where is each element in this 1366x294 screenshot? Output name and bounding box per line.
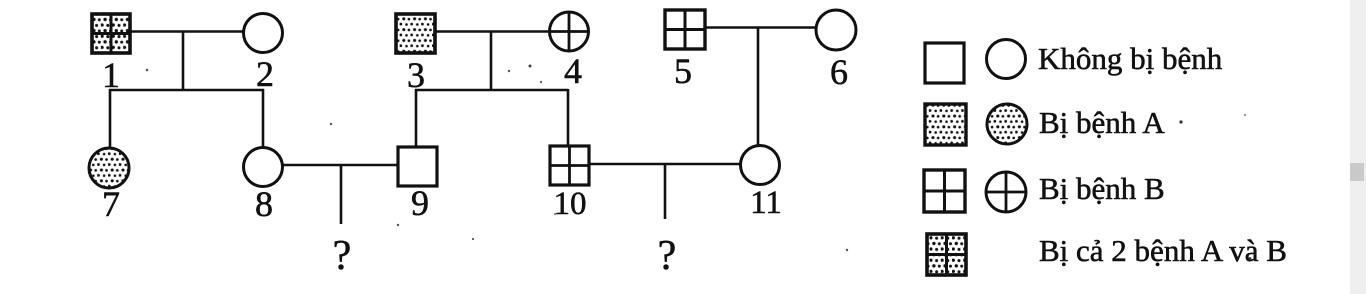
wire: marriage line 5-6 <box>704 26 817 29</box>
svg-text:?: ? <box>658 233 677 279</box>
svg-text:4: 4 <box>564 51 582 91</box>
wire: offspring drop couple 8-9 (unknown child) <box>340 165 343 224</box>
wire: marriage line 1-2 <box>129 30 245 33</box>
individual 1: male affected by both diseases (quad dotted square) <box>92 14 130 53</box>
svg-text:Không bị bệnh: Không bị bệnh <box>1038 41 1223 76</box>
wire: sibship line family 3-4 <box>415 89 568 91</box>
legend: disease A male dotted square <box>925 104 966 145</box>
wire: sibship line family 1-2 <box>109 89 264 91</box>
svg-text:9: 9 <box>411 183 429 223</box>
svg-text:?: ? <box>333 233 352 279</box>
wire: drop to individual 8 <box>262 89 265 149</box>
legend: unaffected female circle <box>987 40 1026 79</box>
svg-text:3: 3 <box>407 55 425 95</box>
individual 11: unaffected female (circle) <box>741 146 780 185</box>
wire: marriage line 8-9 <box>282 164 399 167</box>
legend: disease A female dotted circle <box>987 104 1027 144</box>
legend: disease B male crossed square <box>924 170 965 212</box>
legend: both diseases quad dotted square <box>927 234 966 275</box>
individual 2: unaffected female (circle) <box>244 14 283 53</box>
individual 8: unaffected female (circle) <box>244 148 283 187</box>
wire: marriage line 10-11 <box>588 163 741 166</box>
scrollbar thumb <box>1350 163 1364 181</box>
wire: drop to individual 7 <box>109 89 112 148</box>
svg-text:Bị bệnh B: Bị bệnh B <box>1039 171 1165 206</box>
svg-text:5: 5 <box>674 51 692 91</box>
svg-text:11: 11 <box>750 185 782 221</box>
svg-text:6: 6 <box>830 52 848 92</box>
scrollbar track <box>1350 0 1366 294</box>
individual 3: male affected by disease A (dotted square) <box>396 14 435 53</box>
wire: drop to individual 9 <box>415 89 418 148</box>
svg-text:1: 1 <box>102 55 120 95</box>
wire: descent drop from couple 5-6 to individual 11 <box>757 28 760 148</box>
wire: descent drop from couple 1-2 <box>182 32 185 92</box>
svg-text:8: 8 <box>255 184 273 224</box>
wire: descent drop from couple 3-4 <box>490 32 493 92</box>
individual 9: unaffected male (square) <box>398 147 437 186</box>
individual 5: male affected by disease B (crossed square) <box>665 10 705 49</box>
svg-text:2: 2 <box>256 54 274 94</box>
individual 10: male affected by disease B (crossed square) <box>550 146 589 185</box>
wire: offspring drop couple 10-11 (unknown child) <box>664 164 667 219</box>
wire: marriage line 3-4 <box>435 30 550 33</box>
legend: disease B female crossed circle <box>986 172 1026 212</box>
svg-text:7: 7 <box>102 184 120 224</box>
svg-text:Bị cả 2 bệnh A và B: Bị cả 2 bệnh A và B <box>1039 233 1287 268</box>
svg-text:Bị bệnh A: Bị bệnh A <box>1039 105 1165 140</box>
individual 4: female affected by disease B (crossed circle) <box>550 12 589 51</box>
wire: drop to individual 10 <box>567 89 570 147</box>
speck after Bi benh A <box>1179 120 1182 123</box>
svg-text:10: 10 <box>554 186 587 222</box>
individual 6: unaffected female (circle) <box>816 10 856 50</box>
legend: unaffected male square <box>925 43 964 83</box>
scan specks <box>146 69 149 72</box>
individual 7: female affected by disease A (dotted circle) <box>89 148 129 188</box>
